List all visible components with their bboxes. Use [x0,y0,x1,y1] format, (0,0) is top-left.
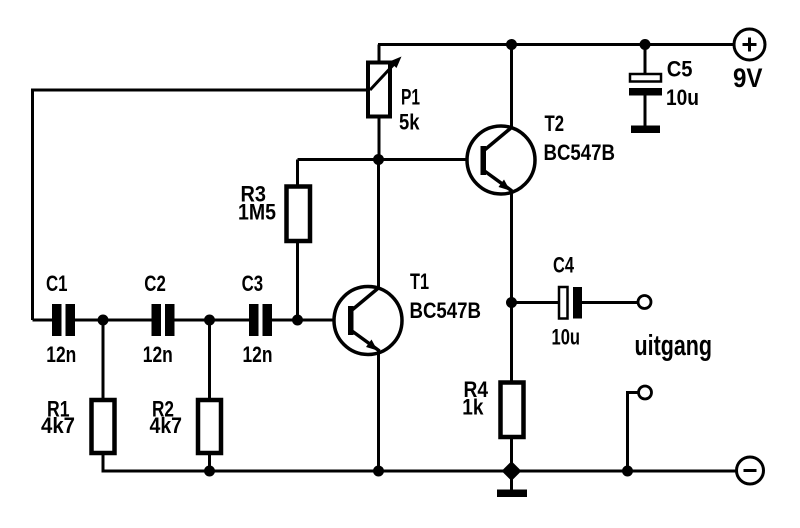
svg-text:uitgang: uitgang [635,330,713,362]
svg-text:BC547B: BC547B [410,298,482,323]
svg-text:1k: 1k [462,395,484,420]
terminal output lower [639,386,652,399]
wire P1 bottom [378,116,381,160]
value 4k7 R1 [41,413,75,438]
svg-text:1M5: 1M5 [238,200,276,225]
value 4k7 R2 [150,413,183,438]
svg-text:12n: 12n [243,342,273,367]
node output rail junction [622,466,633,477]
svg-text:T1: T1 [410,269,429,294]
label C4 [553,253,575,278]
node R2 bottom junction [204,466,215,477]
label C5 [667,57,693,82]
resistor R4 [501,383,524,438]
value BC547B T1 [410,298,482,323]
resistor R2 [198,400,221,453]
value 5k [399,110,420,135]
label 9V [733,63,763,93]
label C3 [242,271,264,296]
wire output lower to rail [628,393,639,472]
value BC547B T2 [544,140,616,165]
svg-text:C1: C1 [46,271,68,296]
svg-text:10u: 10u [552,325,581,350]
wire C4 to output [582,301,638,304]
node C1-R1 junction [98,315,109,326]
svg-text:P1: P1 [401,85,420,110]
svg-text:12n: 12n [143,342,173,367]
node R4 ground junction [502,461,522,481]
node C5 rail junction [640,39,651,50]
label R4 [464,377,489,402]
node T2 collector rail junction [506,39,517,50]
wire chain segment 4 [272,319,350,322]
wire bottom rail [102,470,738,473]
label P1 [401,85,420,110]
svg-text:10u: 10u [666,85,699,110]
potentiometer P1 [368,57,402,117]
value 10u C4 [552,325,581,350]
wire P1 top [378,45,381,64]
value 1M5 [238,200,276,225]
transistor T1 [334,287,402,355]
label uitgang [635,330,713,362]
wire R4 top [510,303,513,384]
label R1 [47,397,70,422]
svg-text:4k7: 4k7 [150,413,183,438]
node C3-R3 junction [292,315,303,326]
wire top rail [378,43,735,46]
wire R1 top [102,320,105,400]
wire base line [298,158,482,161]
wire R4 bottom [510,435,513,471]
capacitor C5 [629,45,662,134]
wire R3 bottom [296,241,299,320]
value 12n C3 [243,342,273,367]
wire R1 bottom [102,454,105,471]
label C1 [46,271,68,296]
capacitor C4 [559,287,582,319]
svg-text:BC547B: BC547B [544,140,616,165]
label T2 [545,111,565,136]
node C2-R2 junction [204,315,215,326]
wire chain segment 2 [75,319,152,322]
wire T2 collector [510,45,513,129]
resistor R3 [287,187,311,242]
wire R2 bottom [208,454,211,471]
svg-text:C4: C4 [553,253,575,278]
wire T2 emitter [510,191,513,303]
svg-text:T2: T2 [545,111,565,136]
resistor R1 [92,400,115,453]
terminal output upper [638,296,651,309]
wire T1 collector [377,160,380,289]
wire T1 emitter [377,351,380,472]
svg-text:C2: C2 [144,271,166,296]
capacitor C1 [52,304,75,336]
svg-text:12n: 12n [46,342,76,367]
wire node to C4 [512,301,560,304]
svg-text:5k: 5k [399,110,420,135]
value 10u C5 [666,85,699,110]
capacitor C3 [249,304,272,336]
label T1 [410,269,429,294]
svg-text:C5: C5 [667,57,693,82]
terminal battery minus [737,457,764,484]
svg-text:4k7: 4k7 [41,413,75,438]
label R2 [152,397,174,422]
svg-text:9V: 9V [733,63,763,93]
wire R2 top [208,320,211,400]
node P1-T1 junction [373,154,384,165]
node emitter C4 R4 junction [506,297,517,308]
label C2 [144,271,166,296]
wire input chain segment 1 [33,319,53,322]
label R3 [241,182,267,207]
value 12n C2 [143,342,173,367]
value 12n C1 [46,342,76,367]
wire R3 top [296,160,299,189]
wire chain segment 3 [175,319,250,322]
capacitor C2 [152,304,175,336]
terminal battery plus [734,29,765,60]
ground [497,471,527,497]
svg-text:C3: C3 [242,271,264,296]
wire feedback vertical [31,89,34,321]
value 1k [462,395,484,420]
transistor T2 [467,126,535,194]
node T1 emitter bottom junction [373,466,384,477]
wire feedback horizontal [33,89,369,92]
